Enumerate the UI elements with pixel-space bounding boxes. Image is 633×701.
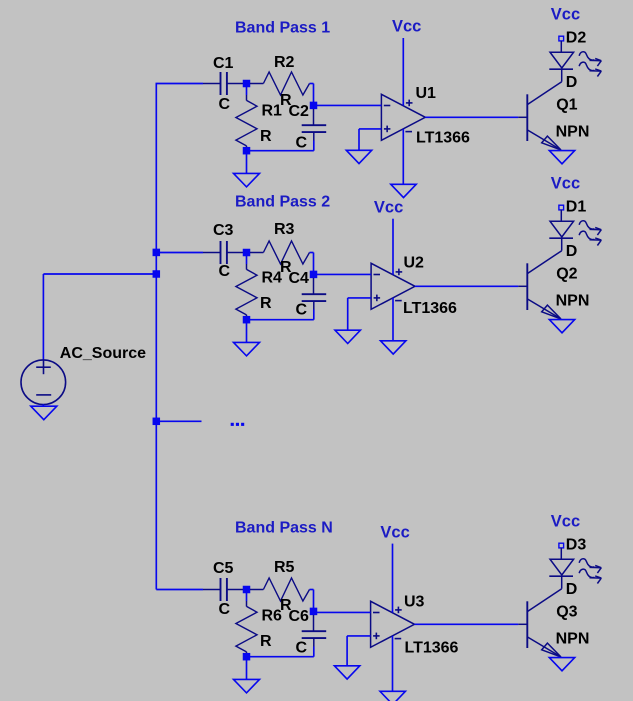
- svg-text:C6: C6: [289, 608, 310, 625]
- svg-text:R5: R5: [274, 559, 295, 576]
- svg-text:C3: C3: [213, 222, 234, 239]
- svg-text:U3: U3: [404, 594, 425, 611]
- svg-text:Vcc: Vcc: [551, 6, 580, 24]
- svg-text:C: C: [296, 640, 308, 657]
- svg-text:NPN: NPN: [556, 630, 590, 647]
- svg-text:D2: D2: [566, 30, 587, 47]
- svg-text:Vcc: Vcc: [392, 18, 421, 36]
- svg-text:Band Pass N: Band Pass N: [235, 519, 333, 536]
- svg-text:R: R: [260, 128, 272, 145]
- svg-text:C2: C2: [289, 103, 310, 120]
- svg-text:D1: D1: [566, 199, 587, 216]
- svg-text:D: D: [566, 243, 578, 260]
- svg-text:R6: R6: [262, 608, 283, 625]
- svg-text:Vcc: Vcc: [380, 524, 409, 542]
- svg-text:R: R: [260, 633, 272, 650]
- svg-text:Vcc: Vcc: [551, 175, 580, 193]
- svg-text:Band Pass 2: Band Pass 2: [235, 194, 330, 211]
- svg-text:C4: C4: [289, 270, 310, 287]
- svg-text:NPN: NPN: [556, 123, 590, 140]
- svg-text:C: C: [219, 96, 231, 113]
- svg-text:R: R: [260, 295, 272, 312]
- svg-text:C1: C1: [213, 55, 234, 72]
- svg-text:NPN: NPN: [556, 292, 590, 309]
- svg-text:C: C: [296, 302, 308, 319]
- svg-text:AC_Source: AC_Source: [60, 345, 146, 362]
- svg-text:Vcc: Vcc: [374, 199, 403, 217]
- svg-text:R1: R1: [262, 103, 283, 120]
- svg-text:D: D: [566, 581, 578, 598]
- svg-text:U1: U1: [416, 85, 437, 102]
- svg-text:LT1366: LT1366: [403, 300, 457, 317]
- svg-text:LT1366: LT1366: [405, 640, 459, 657]
- svg-text:LT1366: LT1366: [416, 129, 470, 146]
- svg-text:Band Pass 1: Band Pass 1: [235, 19, 330, 36]
- svg-text:R4: R4: [262, 270, 283, 287]
- svg-text:C: C: [296, 135, 308, 152]
- svg-text:Q1: Q1: [556, 96, 577, 113]
- svg-text:R3: R3: [274, 221, 295, 238]
- svg-text:C: C: [219, 263, 231, 280]
- svg-text:R2: R2: [274, 54, 295, 71]
- svg-text:Q3: Q3: [556, 603, 577, 620]
- svg-text:D: D: [566, 74, 578, 91]
- svg-text:C: C: [219, 601, 231, 618]
- svg-text:Vcc: Vcc: [551, 513, 580, 531]
- svg-text:U2: U2: [404, 255, 425, 272]
- svg-text:C5: C5: [213, 560, 234, 577]
- svg-text:D3: D3: [566, 537, 587, 554]
- svg-text:Q2: Q2: [556, 265, 577, 282]
